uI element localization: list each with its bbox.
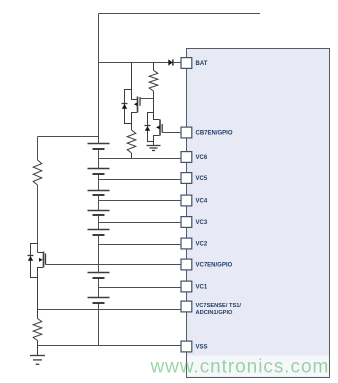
svg-text:VC4: VC4 — [196, 199, 208, 205]
wire pack positive vertical — [98, 14, 100, 144]
battery cell B1 — [88, 144, 110, 150]
battery cell B3 — [88, 191, 110, 196]
ground bottom left — [30, 346, 45, 365]
wire VC3 tap — [99, 222, 182, 224]
wire BAT net — [99, 62, 169, 64]
pin VSS — [181, 341, 208, 352]
battery cell B5 — [88, 230, 110, 236]
transistor Q1 — [122, 63, 141, 131]
battery cell B2 — [88, 169, 110, 175]
battery cell B4 — [88, 211, 110, 216]
diode D1 — [168, 59, 181, 65]
svg-text:VC5: VC5 — [196, 176, 208, 182]
pin BAT — [181, 58, 208, 69]
resistor R1 — [149, 63, 158, 99]
pin VC1 — [181, 281, 208, 292]
svg-text:BAT: BAT — [196, 61, 208, 67]
svg-text:VC6: VC6 — [196, 155, 208, 161]
battery cell B6 — [88, 273, 110, 279]
svg-text:VC2: VC2 — [196, 242, 208, 248]
svg-text:VC7EN/GPIO: VC7EN/GPIO — [196, 263, 233, 269]
ground under Q2 — [147, 146, 161, 151]
wire Q1 gate node — [140, 98, 154, 100]
svg-text:VC1: VC1 — [196, 285, 208, 291]
wire VC5 tap — [99, 179, 182, 181]
wire R3 to Q3 — [37, 185, 39, 253]
svg-text:VC3: VC3 — [196, 220, 208, 226]
resistor R4 — [33, 310, 42, 346]
pin VC4 — [181, 195, 208, 206]
battery cell B7 — [88, 298, 110, 304]
wire VC2 tap — [99, 244, 182, 246]
pin VC7EN/GPIO — [181, 259, 233, 270]
watermark band — [187, 356, 329, 377]
pin VC6 — [181, 152, 208, 163]
svg-text:ADCIN1/GPIO: ADCIN1/GPIO — [196, 310, 234, 316]
wire pack top to left branch — [38, 136, 99, 138]
wire Q3 gate to VC7EN/GPIO pin — [46, 264, 182, 266]
wire Q2 gate to CB7EN/GPIO pin — [162, 132, 181, 134]
transistor Q3 — [28, 244, 46, 310]
wire VC6 tap — [99, 158, 182, 160]
IC U1 body — [187, 49, 330, 378]
pin VC7SENSE/TS1/ADCIN1/GPIO — [181, 301, 241, 316]
wire top border — [99, 13, 261, 15]
wire VSS net — [38, 345, 182, 347]
resistor R3 — [33, 160, 42, 185]
wire battery stack segments — [98, 149, 100, 346]
wire VC4 tap — [99, 200, 182, 202]
pin CB7EN/GPIO — [181, 127, 233, 138]
transistor Q2 — [145, 99, 163, 146]
pin VC3 — [181, 217, 208, 228]
svg-text:CB7EN/GPIO: CB7EN/GPIO — [196, 131, 233, 137]
wire VC7SENSE net — [38, 309, 182, 311]
svg-text:VSS: VSS — [196, 345, 208, 351]
wire VC1 tap — [99, 287, 182, 289]
resistor R2 — [127, 130, 136, 159]
pin VC5 — [181, 173, 208, 184]
wire left branch upper — [37, 137, 39, 161]
svg-text:VC7SENSE/ TS1/: VC7SENSE/ TS1/ — [196, 303, 242, 309]
pin VC2 — [181, 238, 208, 249]
svg-text:www.cntronics.com: www.cntronics.com — [150, 357, 330, 378]
